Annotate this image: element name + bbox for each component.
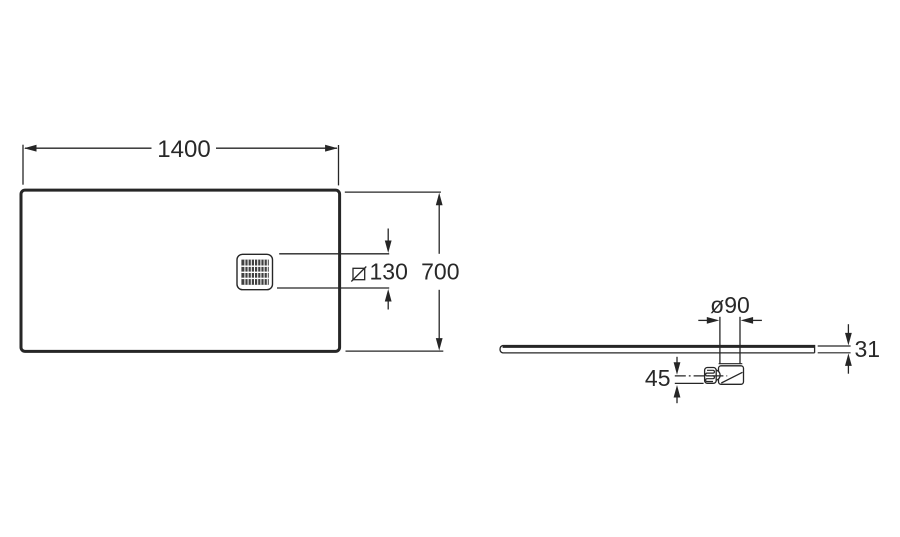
dimension 1400: left extension line [22,145,24,185]
dimension diameter-90: value label [710,292,750,318]
dimension square-130: value label [370,259,408,285]
dimension 700: dimension line with arrowheads [436,193,443,351]
svg-text:ø90: ø90 [710,292,750,318]
dimension 1400: dimension line with arrowheads [24,145,338,152]
dimension 31: value label [855,336,881,362]
dimension square-130: upper arrow [385,229,392,254]
drain trap: collar under slab [719,363,743,365]
dimension square-130: bottom extension line [277,287,389,289]
dimension square-130: square symbol with slash [351,267,366,282]
tray profile slab (side view) [500,346,815,353]
dimension 31: lower arrow [845,353,852,373]
dimension 1400: right extension line [338,145,340,185]
dimension 31: top extension line [818,345,851,347]
svg-text:130: 130 [370,259,408,285]
svg-text:45: 45 [645,365,671,391]
svg-text:700: 700 [421,259,459,285]
svg-text:1400: 1400 [157,136,210,163]
drain grate outer frame (plan view) [237,254,273,289]
dimension 45: dash-dot centre line [675,375,727,377]
dimension 31: upper arrow [845,324,852,345]
dimension diameter-90: right arrow [741,317,762,324]
dimension 700: top extension line [345,191,441,193]
dimension 700: bottom extension line [346,350,444,352]
dimension square-130: lower arrow [385,289,392,310]
drain trap: elbow miter line [721,372,742,383]
dimension 31: bottom extension line [818,352,851,354]
dimension diameter-90: left arrow [698,317,719,324]
dimension diameter-90: left extension line / pipe wall [719,317,721,364]
drain trap: elbow body [719,366,744,385]
dimension 45: upper arrow [674,357,681,375]
drain grate slot pattern [241,260,268,285]
dimension 45: lower arrow [674,385,681,403]
dimension square-130: top extension line [279,253,389,255]
drain trap: ribbed compression nut [705,368,717,384]
dimension diameter-90: right extension line / pipe wall [739,317,741,364]
dimension 700: value label [421,259,459,285]
dimension 45: lower reference line [675,382,704,384]
drain trap: joint circle [710,370,721,381]
dimension 45: value label [645,365,671,391]
dimension 1400: value label [157,136,210,163]
svg-text:31: 31 [855,336,881,362]
tray outline (plan view) [21,190,340,351]
